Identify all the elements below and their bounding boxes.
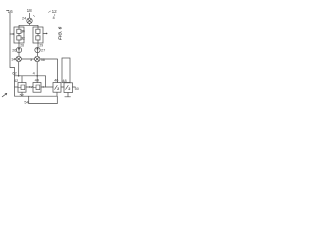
svg-text:2: 2 (68, 87, 70, 91)
svg-text:12: 12 (52, 9, 58, 14)
svg-text:42: 42 (14, 79, 18, 83)
svg-text:8: 8 (53, 16, 55, 20)
svg-text:44: 44 (35, 79, 39, 83)
svg-text:24: 24 (22, 16, 26, 20)
svg-text:46: 46 (54, 79, 58, 83)
svg-text:28: 28 (20, 44, 24, 48)
svg-text:27: 27 (41, 49, 45, 53)
svg-text:29: 29 (39, 44, 43, 48)
svg-text:30: 30 (21, 29, 25, 33)
svg-text:18: 18 (27, 8, 33, 13)
svg-text:FIG. 6: FIG. 6 (58, 26, 64, 40)
svg-text:48: 48 (62, 79, 66, 83)
svg-text:54: 54 (24, 100, 28, 104)
svg-text:34: 34 (11, 58, 15, 62)
svg-text:62: 62 (12, 72, 16, 76)
svg-text:3: 3 (30, 58, 32, 62)
svg-text:36: 36 (41, 58, 45, 62)
svg-text:16: 16 (8, 9, 14, 14)
svg-text:52: 52 (20, 94, 24, 98)
svg-text:50: 50 (75, 87, 79, 91)
svg-text:26: 26 (12, 49, 16, 53)
svg-text:2: 2 (57, 87, 59, 91)
svg-text:4: 4 (33, 71, 35, 75)
svg-text:32: 32 (21, 36, 25, 40)
